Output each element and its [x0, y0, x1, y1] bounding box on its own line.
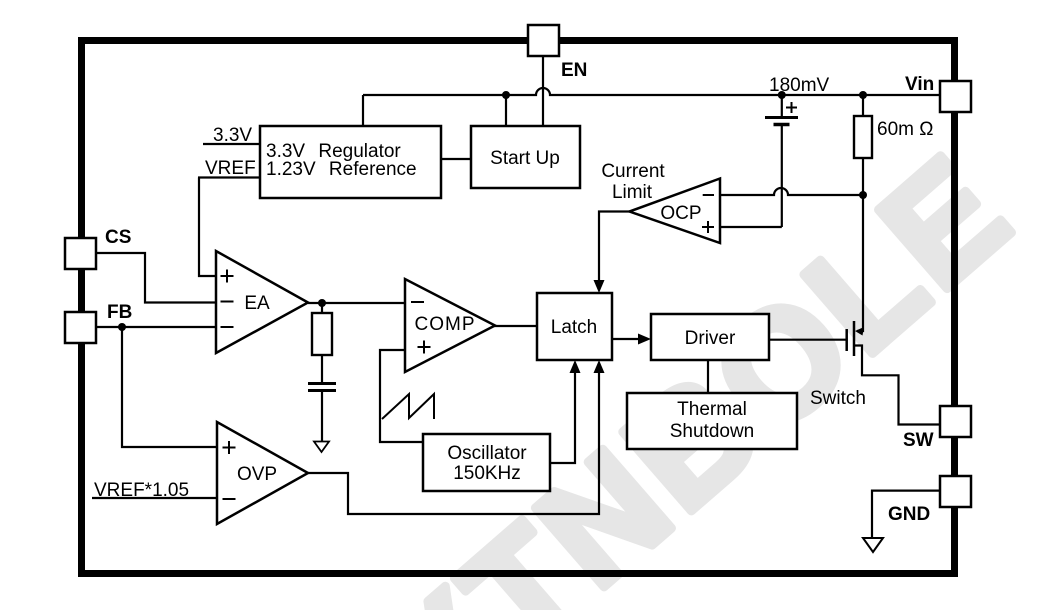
block Driver — [651, 314, 769, 360]
svg-text:Limit: Limit — [612, 182, 653, 203]
wire rail junction down to StartUp — [505, 95, 507, 126]
svg-text:Thermal: Thermal — [677, 399, 747, 420]
svg-text:EA: EA — [244, 293, 270, 314]
junction node EA output — [318, 299, 326, 307]
ground (GND pin) — [863, 538, 883, 552]
block 3.3V Regulator / 1.23V Reference — [260, 126, 441, 198]
op-amp EA — [216, 251, 308, 353]
wire Driver to Thermal Shutdown — [707, 360, 709, 393]
wire MOSFET source to SW pin — [854, 346, 940, 425]
wire CS to EA minus1 — [97, 253, 216, 303]
junction node on rail at x=506 — [502, 91, 510, 99]
block Start Up — [471, 126, 580, 188]
pin EN — [528, 25, 559, 56]
block Latch — [537, 293, 612, 360]
wire regulator top to rail — [362, 95, 364, 126]
svg-text:Switch: Switch — [810, 388, 866, 409]
svg-text:CS: CS — [105, 227, 131, 248]
comparator OVP — [217, 422, 308, 524]
junction node 60mohm top — [859, 91, 867, 99]
svg-text:OVP: OVP — [237, 464, 277, 485]
pin FB — [65, 312, 96, 343]
svg-text:Vin: Vin — [905, 74, 934, 95]
wire COMP output to Latch — [494, 325, 537, 327]
junction node battery top — [778, 91, 786, 99]
pin SW — [940, 406, 971, 437]
wire VREF stub — [198, 176, 260, 178]
wire 60mohm bottom lead — [862, 158, 864, 195]
wire regulator to StartUp — [441, 158, 471, 160]
arrowhead into Latch top — [594, 280, 605, 293]
wire OCP minus input with hop over battery line — [720, 188, 864, 195]
wire EN pin down to StartUp — [542, 56, 544, 126]
wire battery bottom lead to OCP plus — [781, 126, 783, 227]
comparator COMP — [405, 279, 495, 372]
pin CS — [65, 238, 96, 269]
comparator OCP (left pointing) — [630, 179, 721, 244]
wire OCP output to Latch top — [599, 212, 630, 286]
wire battery top lead — [781, 95, 783, 117]
chip outer border — [82, 41, 955, 574]
wire VREF*1.05 to OVP minus — [92, 497, 217, 499]
wire drain lead down to MOSFET — [857, 195, 863, 331]
wire COMP plus to oscillator — [380, 350, 423, 442]
svg-text:VREF*1.05: VREF*1.05 — [94, 480, 189, 501]
svg-text:SW: SW — [903, 430, 934, 451]
resistor 60mohm — [854, 116, 872, 158]
battery plus sign — [786, 102, 797, 113]
svg-text:COMP: COMP — [415, 314, 476, 335]
block Thermal Shutdown — [627, 393, 797, 449]
wire VREF to EA plus — [199, 178, 216, 277]
wire oscillator output to Latch bottom — [550, 366, 575, 463]
wire Latch output to Driver — [612, 338, 640, 340]
wire C1 to ground — [321, 391, 323, 441]
sawtooth waveform — [382, 394, 434, 419]
resistor R1 at EA output — [312, 313, 332, 355]
svg-text:Oscillator: Oscillator — [447, 443, 527, 464]
svg-text:60m Ω: 60m Ω — [877, 119, 933, 140]
wire FB to EA minus2 — [97, 326, 216, 328]
wire EA output to COMP minus — [308, 302, 405, 304]
svg-text:Shutdown: Shutdown — [670, 421, 755, 442]
wire GND pin to ground symbol — [872, 491, 940, 538]
wire FB junction to OVP plus — [122, 327, 217, 447]
svg-text:3.3V: 3.3V — [213, 125, 252, 146]
MOSFET drain arrowhead — [855, 327, 864, 336]
wire 3.3V stub — [203, 143, 260, 145]
arrowhead into Driver — [638, 334, 651, 345]
pin GND — [940, 476, 971, 507]
transistor Q1 switch MOSFET — [847, 321, 854, 356]
wire EA output down to R1 — [321, 303, 323, 313]
svg-text:EN: EN — [561, 60, 587, 81]
capacitor C1 — [308, 384, 336, 391]
ground (capacitor) — [314, 442, 329, 453]
battery 180mV plates — [765, 118, 798, 125]
wire R1 to C1 — [321, 355, 323, 383]
wire top rail y=95 with hop over EN line — [363, 88, 940, 95]
svg-text:OCP: OCP — [660, 203, 701, 224]
svg-text:Current: Current — [601, 161, 665, 182]
svg-text:150KHz: 150KHz — [453, 463, 521, 484]
svg-text:GND: GND — [888, 504, 930, 525]
pin Vin — [940, 81, 971, 112]
arrowhead into Latch bottom from OVP — [594, 360, 605, 373]
svg-text:180mV: 180mV — [769, 75, 830, 96]
wire 60mohm top lead — [862, 95, 864, 116]
arrowhead into Latch bottom from oscillator — [570, 360, 581, 373]
svg-text:1.23V Reference: 1.23V Reference — [266, 159, 417, 180]
wire OVP output to Latch bottom — [308, 366, 599, 514]
svg-text:FB: FB — [107, 302, 132, 323]
wire OCP plus input — [720, 226, 782, 228]
svg-text:VREF: VREF — [205, 158, 256, 179]
wire Driver to MOSFET gate — [769, 339, 847, 341]
junction node FB line — [118, 323, 126, 331]
block Oscillator 150KHz — [423, 434, 550, 491]
svg-text:Driver: Driver — [685, 328, 736, 349]
junction node OCP minus at 60mohm — [859, 191, 867, 199]
svg-text:Latch: Latch — [551, 317, 597, 338]
svg-text:Start Up: Start Up — [490, 148, 560, 169]
